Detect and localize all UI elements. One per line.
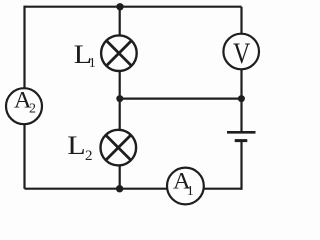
svg-text:1: 1	[187, 184, 194, 199]
svg-text:1: 1	[89, 56, 96, 71]
wire bottom	[25, 188, 242, 190]
lamp L1	[101, 35, 137, 71]
node mid-left junction	[116, 95, 123, 102]
ammeter A2	[6, 88, 42, 124]
svg-text:L: L	[67, 132, 85, 161]
label L1	[74, 41, 96, 71]
wire right	[240, 7, 242, 132]
node top junction	[116, 3, 123, 10]
wire right lower	[240, 140, 242, 190]
label L2	[67, 132, 92, 164]
lamp L2	[101, 130, 137, 166]
node mid-right junction	[238, 95, 245, 102]
ammeter A1	[167, 168, 204, 205]
voltmeter V	[223, 34, 259, 70]
wire middle branch	[119, 7, 121, 189]
svg-text:2: 2	[85, 148, 93, 164]
battery short plate	[235, 139, 248, 142]
svg-text:2: 2	[29, 102, 36, 117]
wire left	[23, 6, 25, 189]
svg-text:V: V	[233, 36, 251, 69]
wire top	[25, 6, 242, 8]
node bottom junction	[116, 185, 123, 192]
battery long plate	[227, 131, 256, 134]
wire middle horizontal	[120, 97, 242, 99]
